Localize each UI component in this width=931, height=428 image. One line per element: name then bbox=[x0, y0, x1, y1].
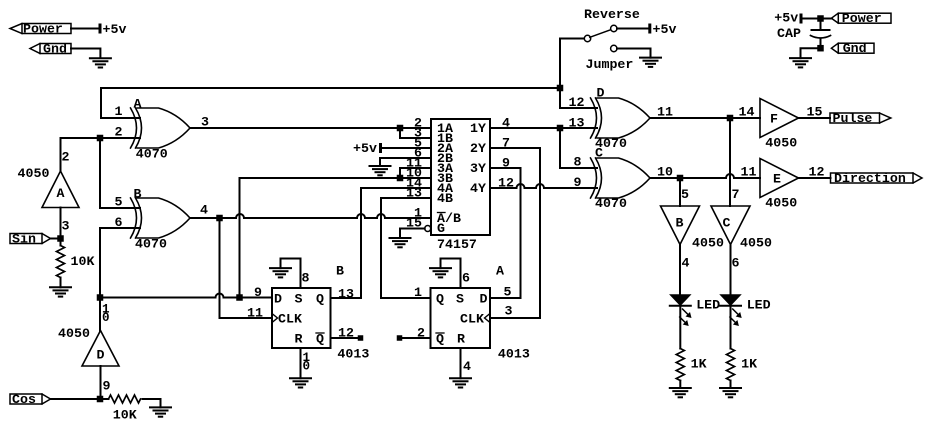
svg-text:CLK: CLK bbox=[278, 311, 302, 326]
svg-text:Gnd: Gnd bbox=[843, 41, 867, 56]
svg-text:4070: 4070 bbox=[595, 196, 627, 211]
svg-text:14: 14 bbox=[739, 105, 755, 120]
connector flag Pulse bbox=[830, 113, 880, 123]
wire R to ground bbox=[300, 348, 302, 378]
svg-text:G: G bbox=[437, 221, 445, 236]
wire S to ground bbox=[441, 259, 461, 289]
gnd flag GND bbox=[40, 44, 71, 54]
svg-text:4050: 4050 bbox=[58, 326, 90, 341]
svg-text:2Y: 2Y bbox=[470, 141, 486, 156]
svg-text:C: C bbox=[723, 216, 731, 231]
resistor 1K bbox=[727, 349, 735, 381]
wire bbox=[730, 381, 732, 389]
wire G to ground bbox=[400, 229, 425, 239]
ground bbox=[90, 58, 111, 67]
svg-text:2: 2 bbox=[62, 150, 70, 165]
svg-text:4050: 4050 bbox=[18, 166, 50, 181]
ground bbox=[640, 58, 661, 67]
connector flag Direction bbox=[831, 173, 914, 183]
svg-text:B: B bbox=[134, 187, 142, 202]
switch contact +5v bbox=[611, 25, 617, 31]
svg-text:9: 9 bbox=[574, 175, 582, 190]
wire 2B to ground bbox=[380, 158, 431, 166]
node junction PULSE bbox=[727, 115, 734, 122]
xor-gate B bbox=[131, 198, 137, 238]
connector flag Cos bbox=[10, 394, 42, 404]
wire 1Y output bbox=[490, 127, 597, 129]
svg-text:7: 7 bbox=[502, 136, 510, 151]
switch JP1 common contact bbox=[584, 35, 590, 41]
svg-text:9: 9 bbox=[103, 379, 111, 394]
+5V tick bbox=[800, 14, 803, 24]
svg-text:C: C bbox=[595, 146, 603, 161]
wire XOR A output to 74157 1A bbox=[190, 127, 431, 129]
wire +5v to 2A bbox=[382, 147, 431, 149]
power flag POWER right bbox=[838, 13, 891, 23]
svg-text:Sin: Sin bbox=[12, 231, 36, 246]
svg-text:Jumper: Jumper bbox=[586, 57, 634, 72]
svg-text:12: 12 bbox=[498, 176, 514, 191]
wire down to buffer C input, vertical bbox=[729, 118, 731, 206]
capacitor C1 polarized bbox=[820, 22, 822, 31]
svg-text:E: E bbox=[773, 171, 781, 186]
wire to XOR B pin 5 bbox=[100, 138, 140, 208]
wire resistor lead bbox=[100, 398, 109, 400]
connector flag Sin bbox=[10, 234, 42, 244]
svg-text:13: 13 bbox=[569, 116, 585, 131]
svg-text:D: D bbox=[480, 291, 488, 306]
wire XOR B pin 6 from COSB vertical bbox=[100, 228, 140, 298]
svg-text:5: 5 bbox=[681, 187, 689, 202]
+5V tick at 74157 2A bbox=[379, 143, 382, 153]
svg-text:4: 4 bbox=[463, 359, 471, 374]
svg-text:9: 9 bbox=[254, 285, 262, 300]
ground bbox=[790, 58, 811, 67]
svg-text:6: 6 bbox=[115, 215, 123, 230]
+5V tick bbox=[648, 24, 651, 34]
svg-text:Q: Q bbox=[436, 291, 444, 306]
wire buffer A input bbox=[60, 208, 62, 239]
node junction 1Y bbox=[557, 125, 564, 132]
wire bbox=[803, 18, 833, 20]
switch lever bbox=[590, 30, 611, 38]
svg-text:B: B bbox=[676, 216, 684, 231]
svg-text:7: 7 bbox=[732, 187, 740, 202]
svg-text:D: D bbox=[597, 86, 605, 101]
svg-text:Gnd: Gnd bbox=[43, 41, 67, 56]
svg-text:2: 2 bbox=[417, 326, 425, 341]
ground bbox=[720, 388, 741, 397]
svg-text:4070: 4070 bbox=[135, 237, 167, 252]
svg-text:A: A bbox=[57, 186, 65, 201]
wire resistor lead bbox=[60, 239, 62, 246]
svg-text:+5v: +5v bbox=[774, 11, 798, 26]
svg-text:R: R bbox=[457, 331, 465, 346]
svg-text:3: 3 bbox=[201, 115, 209, 130]
wire bbox=[143, 399, 161, 407]
svg-text:12: 12 bbox=[569, 95, 585, 110]
svg-text:1: 1 bbox=[115, 104, 123, 119]
svg-text:5: 5 bbox=[504, 285, 512, 300]
svg-text:5: 5 bbox=[115, 195, 123, 210]
svg-text:4013: 4013 bbox=[337, 346, 369, 361]
xor-gate D bbox=[591, 98, 597, 138]
wire down to flip-flop B CLK bbox=[220, 218, 273, 318]
wire XOR B output to 74157 A/B select, hops bbox=[190, 214, 431, 218]
svg-text:74157: 74157 bbox=[437, 237, 477, 252]
wire up to 74157 3B bbox=[240, 178, 432, 298]
svg-text:8: 8 bbox=[574, 155, 582, 170]
svg-text:10: 10 bbox=[657, 165, 673, 180]
node junction CLKB bbox=[216, 215, 223, 222]
node stub bbox=[397, 335, 403, 341]
xor-gate A top arcs bbox=[131, 108, 137, 148]
xor-gate C bbox=[591, 158, 597, 198]
svg-text:4: 4 bbox=[200, 203, 208, 218]
svg-text:3: 3 bbox=[505, 304, 513, 319]
svg-text:S: S bbox=[456, 291, 464, 306]
node COSB junction bbox=[97, 294, 104, 301]
svg-text:3Y: 3Y bbox=[470, 161, 486, 176]
op-amp buffer A (4050) bbox=[42, 171, 79, 208]
svg-text:CLK: CLK bbox=[460, 311, 484, 326]
wire REV up to switch bbox=[560, 39, 585, 89]
wire Q-bar stub bbox=[400, 337, 431, 339]
wire bbox=[60, 278, 62, 288]
wire buffer B to LED bbox=[679, 245, 681, 296]
wire bbox=[617, 49, 651, 58]
wire Q-bar stub bbox=[331, 337, 361, 339]
clk chevron bbox=[272, 314, 278, 323]
wire R to ground bbox=[460, 348, 462, 378]
wire buffer D input bbox=[100, 366, 102, 399]
svg-text:11: 11 bbox=[657, 105, 673, 120]
svg-text:3: 3 bbox=[62, 219, 70, 234]
svg-text:4050: 4050 bbox=[765, 196, 797, 211]
node junction 3A/3B tie bbox=[397, 175, 404, 182]
svg-text:D: D bbox=[274, 291, 282, 306]
node SIN junction bbox=[97, 135, 104, 142]
svg-text:Cos: Cos bbox=[12, 392, 36, 407]
wire 1Y down to XOR C pin 8 bbox=[560, 128, 597, 168]
ground bbox=[450, 378, 471, 387]
op-amp buffer F (4050) bbox=[760, 99, 799, 138]
wire 3A tie bbox=[400, 168, 431, 178]
resistor 10K (Sin pulldown) bbox=[57, 246, 65, 278]
wire bbox=[51, 238, 62, 240]
svg-text:6: 6 bbox=[462, 271, 470, 286]
wire bbox=[617, 28, 649, 30]
svg-text:A: A bbox=[134, 97, 142, 112]
wire bbox=[730, 307, 732, 349]
node junction 1A/1B tie bbox=[397, 125, 404, 132]
wire bbox=[679, 381, 681, 389]
svg-text:+5v: +5v bbox=[353, 141, 377, 156]
wire to ground bbox=[801, 48, 821, 58]
svg-text:D: D bbox=[97, 348, 105, 363]
wire 4B from flip-flop A Q bbox=[381, 198, 431, 298]
svg-text:10K: 10K bbox=[71, 254, 95, 269]
node junction 3B feed bbox=[236, 294, 243, 301]
flip-flop A (4013) body bbox=[431, 288, 491, 348]
svg-text:4Y: 4Y bbox=[470, 181, 486, 196]
op-amp buffer E (4050) bbox=[760, 159, 799, 198]
svg-text:F: F bbox=[770, 111, 778, 126]
svg-text:2: 2 bbox=[115, 125, 123, 140]
svg-text:10K: 10K bbox=[113, 408, 137, 423]
switch contact gnd bbox=[611, 45, 617, 51]
svg-text:0: 0 bbox=[102, 311, 110, 325]
svg-text:B: B bbox=[336, 264, 344, 279]
svg-text:11: 11 bbox=[247, 306, 263, 321]
resistor 1K bbox=[676, 349, 684, 381]
clk chevron bbox=[485, 314, 491, 323]
svg-text:Q: Q bbox=[316, 291, 324, 306]
wire 2Y to flip-flop A CLK bbox=[490, 148, 540, 318]
svg-text:Pulse: Pulse bbox=[833, 111, 873, 126]
svg-text:13: 13 bbox=[338, 287, 354, 302]
svg-text:1: 1 bbox=[414, 285, 422, 300]
svg-text:9: 9 bbox=[502, 156, 510, 171]
svg-text:4: 4 bbox=[502, 116, 510, 131]
wire COSB vertical to buffer D bbox=[99, 298, 101, 331]
svg-text:4050: 4050 bbox=[765, 136, 797, 151]
svg-text:12: 12 bbox=[809, 165, 825, 180]
svg-text:LED: LED bbox=[747, 298, 771, 313]
wire bbox=[679, 307, 681, 349]
svg-text:8: 8 bbox=[302, 271, 310, 286]
node stub bbox=[358, 335, 364, 341]
svg-text:Power: Power bbox=[23, 21, 63, 36]
wire 4A from flip-flop B Q bbox=[331, 188, 432, 298]
wire 1B tie bbox=[400, 128, 431, 138]
svg-text:4: 4 bbox=[682, 256, 690, 271]
svg-text:6: 6 bbox=[414, 146, 422, 161]
svg-text:A: A bbox=[496, 264, 504, 279]
wire S to ground bbox=[281, 259, 301, 289]
svg-text:4B: 4B bbox=[437, 191, 453, 206]
svg-text:1K: 1K bbox=[691, 357, 707, 372]
wire REV net down to XOR D pin 12 bbox=[560, 88, 597, 108]
wire buffer E output bbox=[799, 177, 831, 179]
node Sin junction bbox=[57, 235, 64, 242]
svg-text:11: 11 bbox=[741, 165, 757, 180]
svg-text:Direction: Direction bbox=[834, 171, 906, 186]
svg-text:R: R bbox=[295, 331, 303, 346]
svg-text:Reverse: Reverse bbox=[584, 7, 640, 22]
svg-text:4013: 4013 bbox=[498, 346, 530, 361]
svg-text:S: S bbox=[295, 291, 303, 306]
svg-text:0: 0 bbox=[303, 360, 311, 374]
svg-text:12: 12 bbox=[338, 326, 354, 341]
LED D1 bbox=[671, 295, 690, 305]
LED D2 bbox=[721, 295, 740, 305]
op-amp buffer B (4050) bbox=[661, 206, 700, 245]
svg-text:CAP: CAP bbox=[777, 26, 801, 41]
wire bbox=[71, 49, 100, 59]
ground bbox=[370, 166, 391, 175]
wire buffer A out to XOR A pin 2 bbox=[61, 138, 141, 171]
svg-text:4050: 4050 bbox=[740, 236, 772, 251]
node junction REV bbox=[557, 85, 564, 92]
wire 4Y to XOR C pin 9, hops bbox=[490, 184, 597, 188]
svg-text:6: 6 bbox=[732, 256, 740, 271]
wire buffer F output bbox=[799, 117, 831, 119]
ground bbox=[430, 268, 451, 277]
op-amp buffer C (4050) bbox=[711, 206, 750, 245]
74157 multiplexer U1 body bbox=[431, 119, 490, 235]
svg-text:LED: LED bbox=[696, 298, 720, 313]
wire bbox=[51, 398, 101, 400]
+5V tick bbox=[99, 24, 102, 34]
node junction DIR bbox=[677, 175, 684, 182]
flip-flop B (4013) body bbox=[272, 288, 331, 348]
wire 3Y to flip-flop A D bbox=[490, 168, 521, 298]
resistor 10K (Cos pulldown) bbox=[109, 395, 141, 403]
wire bbox=[71, 28, 99, 30]
node junction bbox=[817, 45, 824, 52]
ground bbox=[270, 268, 291, 277]
ground bbox=[50, 287, 71, 296]
ground bbox=[290, 378, 311, 387]
svg-text:15: 15 bbox=[807, 105, 823, 120]
ground bbox=[390, 238, 411, 247]
gnd flag GND right bbox=[838, 43, 874, 53]
svg-text:1Y: 1Y bbox=[470, 121, 486, 136]
power flag POWER bbox=[22, 24, 71, 34]
wire COSB horizontal to flip-flop B D input, hop over CLKB vertical bbox=[100, 294, 272, 298]
ground bbox=[670, 388, 691, 397]
pin 15 bubble bbox=[425, 226, 431, 232]
svg-text:4070: 4070 bbox=[136, 147, 168, 162]
wire down to buffer B input bbox=[679, 178, 681, 206]
wire XOR D output to buffer F bbox=[650, 117, 760, 119]
ground bbox=[150, 407, 171, 416]
op-amp buffer D (4050) bbox=[82, 331, 119, 367]
svg-text:+5v: +5v bbox=[653, 22, 677, 37]
svg-text:Power: Power bbox=[842, 11, 882, 26]
wire net REV loop to XOR A pin 1 bbox=[101, 88, 560, 118]
svg-text:4050: 4050 bbox=[692, 236, 724, 251]
svg-text:+5v: +5v bbox=[103, 22, 127, 37]
node Cos junction bbox=[97, 396, 104, 403]
node junction bbox=[817, 15, 824, 22]
wire XOR C output to buffer E, hop bbox=[650, 174, 760, 178]
wire buffer C to LED bbox=[730, 245, 732, 296]
svg-text:1K: 1K bbox=[741, 357, 757, 372]
